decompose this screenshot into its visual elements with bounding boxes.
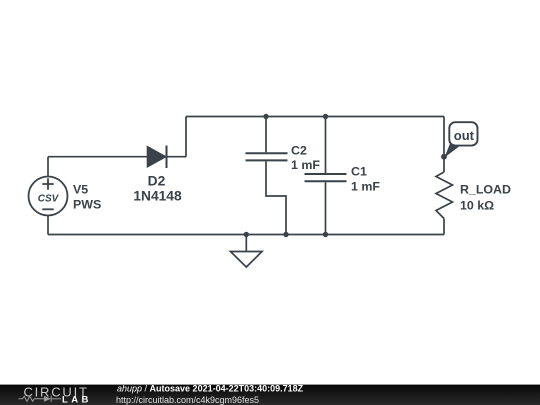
svg-text:C2: C2: [291, 144, 307, 158]
capacitor C2: [246, 117, 288, 235]
svg-text:10 kΩ: 10 kΩ: [460, 199, 494, 213]
label C1 1 mF: [351, 165, 380, 194]
svg-text:CSV: CSV: [38, 193, 60, 204]
node dot bottom rail C2: [283, 232, 288, 237]
wire source top lead: [47, 157, 49, 177]
svg-text:1 mF: 1 mF: [351, 179, 380, 193]
capacitor C1: [305, 117, 347, 235]
node dot top rail C2: [263, 114, 268, 119]
CircuitLab logo squiggle: [19, 396, 62, 403]
node dot out: [441, 154, 447, 160]
svg-text:ahupp / Autosave 2021-04-22T03: ahupp / Autosave 2021-04-22T03:40:09.718…: [117, 384, 304, 394]
svg-text:1N4148: 1N4148: [133, 189, 182, 204]
svg-text:LAB: LAB: [62, 395, 91, 405]
diode D2: [147, 146, 166, 169]
wire right side: [443, 117, 445, 235]
svg-text:V5: V5: [73, 183, 88, 197]
resistor R_LOAD: [436, 172, 453, 219]
label V5 PWS: [73, 183, 101, 212]
wire top rail: [186, 116, 444, 118]
footer bar: [0, 385, 540, 405]
voltage source V5: [29, 177, 68, 216]
node dot top rail C1: [323, 114, 328, 119]
node dot bottom rail C1: [323, 232, 328, 237]
svg-text:PWS: PWS: [73, 197, 101, 211]
svg-text:D2: D2: [148, 174, 166, 189]
ground: [231, 235, 263, 268]
label D2 1N4148: [133, 174, 182, 204]
wire diode row: [48, 117, 186, 157]
wire source bottom lead: [47, 216, 49, 235]
node dot ground: [244, 232, 249, 237]
svg-text:out: out: [454, 128, 475, 143]
svg-text:C1: C1: [351, 165, 367, 179]
svg-text:http://circuitlab.com/c4k9cgm9: http://circuitlab.com/c4k9cgm96fes5: [116, 395, 259, 405]
wire bottom rail: [48, 234, 444, 236]
label C2 1 mF: [291, 144, 320, 173]
label R_LOAD 10 kOhm: [460, 183, 511, 213]
svg-text:R_LOAD: R_LOAD: [460, 183, 511, 197]
out flag: [445, 122, 478, 157]
svg-text:1 mF: 1 mF: [291, 158, 320, 172]
